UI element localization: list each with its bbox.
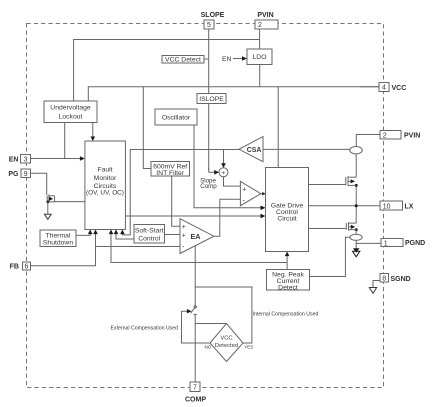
svg-text:Detect: Detect: [278, 284, 298, 291]
wire pin2 top stem to LDO: [259, 29, 261, 49]
transistor Q1 PG open-drain: [46, 194, 85, 203]
svg-text:Detected: Detected: [215, 343, 238, 349]
wire EA output to comparator minus: [214, 199, 241, 236]
block Soft-Start Control: [134, 225, 165, 244]
pin 2 PVIN right: [380, 131, 420, 140]
node low FET source: [355, 228, 358, 231]
wire VCC rail y=86.7: [88, 87, 379, 101]
svg-text:YES: YES: [244, 344, 253, 349]
decision diamond VCC Detected: [205, 324, 254, 362]
ground SGND: [369, 288, 376, 294]
svg-text:+: +: [182, 224, 186, 231]
svg-text:INT Filter: INT Filter: [156, 170, 185, 177]
svg-text:VCC: VCC: [392, 85, 407, 92]
pin 8 SGND: [380, 274, 411, 283]
pin 10 LX: [380, 201, 414, 210]
wire 600mV ref feed from VCC rail: [143, 87, 151, 169]
wire FB branch to EA minus: [96, 246, 181, 248]
svg-text:COMP: COMP: [185, 397, 206, 404]
pin 5 SLOPE: [201, 12, 225, 29]
wire sensor to PGND pin and ground: [356, 240, 381, 243]
svg-text:PVIN: PVIN: [257, 12, 273, 19]
current sensor PGND ellipse: [350, 234, 362, 240]
svg-text:Monitor: Monitor: [94, 175, 117, 182]
svg-text:NO: NO: [205, 344, 212, 349]
svg-text:LX: LX: [405, 203, 414, 210]
svg-text:10: 10: [383, 203, 391, 210]
svg-text:EN: EN: [9, 156, 19, 163]
svg-text:CSA: CSA: [247, 147, 262, 154]
current sensor PVIN ellipse: [350, 147, 363, 154]
block Fault Monitor Circuits: [85, 141, 126, 230]
block VCC Detect: [162, 56, 204, 64]
svg-text:Internal Compensation Used: Internal Compensation Used: [253, 312, 319, 318]
pin 6 FB: [10, 262, 31, 271]
wire internal comp branch (YES path): [195, 287, 252, 343]
svg-text:5: 5: [207, 22, 211, 29]
ground PG transistor: [47, 202, 49, 214]
ground PGND arrow: [355, 243, 357, 249]
wire CSA sense line to PVIN current sensor: [263, 148, 350, 150]
wire sensor to high FET drain: [355, 154, 357, 177]
svg-text:FB: FB: [10, 264, 19, 271]
svg-text:ISLOPE: ISLOPE: [199, 96, 224, 103]
wire high gate lead: [309, 184, 346, 186]
svg-text:7: 7: [193, 385, 197, 392]
switch compensation select: [191, 306, 197, 382]
wire VCC to gate drive vertical x=278.2: [277, 87, 279, 168]
label box ISLOPE: [197, 94, 226, 104]
label EN with arrow into LDO: [222, 56, 247, 63]
wire PVIN/EN top rail y=39.5: [74, 40, 260, 102]
wire soft-start to EA plus: [165, 234, 181, 236]
svg-text:Control: Control: [138, 236, 160, 243]
svg-text:LDO: LDO: [253, 54, 267, 61]
wire COMP sense from fault monitor: [111, 233, 287, 263]
pin 9 PG: [8, 169, 30, 178]
svg-text:Undervoltage: Undervoltage: [50, 105, 91, 112]
svg-text:Thermal: Thermal: [46, 232, 71, 239]
wire summing junction to comparator plus: [224, 177, 241, 186]
IC boundary dashed border: [27, 24, 384, 388]
block Oscillator: [155, 109, 197, 125]
wire LX line to pin10: [309, 205, 381, 207]
summing junction slope comp: [219, 168, 228, 177]
svg-text:PGND: PGND: [405, 240, 425, 247]
transistor Q3 low-side MOSFET: [346, 222, 356, 230]
svg-text:Shutdown: Shutdown: [43, 239, 73, 246]
wire comparator output to gate drive: [261, 193, 264, 195]
wire LX node vertical: [355, 185, 357, 223]
op-amp EA error amplifier: [180, 219, 214, 254]
svg-text:4: 4: [382, 85, 386, 92]
svg-text:(OV, UV, OC): (OV, UV, OC): [86, 189, 124, 196]
wire LDO output stem: [259, 65, 261, 87]
svg-text:+: +: [242, 186, 246, 193]
wire SGND pin to ground: [373, 281, 380, 288]
wire PVIN pin2 to current sensor: [356, 135, 380, 147]
wire low FET source to PGND sensor: [355, 230, 357, 235]
wire CSA output to fault monitor loop: [122, 150, 239, 235]
svg-text:External Compensation Used: External Compensation Used: [111, 326, 179, 332]
svg-text:2: 2: [258, 22, 262, 29]
svg-text:9: 9: [24, 171, 28, 178]
wire summing junction drop from CSA line: [223, 150, 225, 165]
wire SLOPE net: pin5 down to summing junction: [208, 29, 210, 170]
wire soft-start to fault monitor: [116, 233, 134, 240]
svg-text:SGND: SGND: [391, 276, 411, 283]
svg-text:8: 8: [382, 276, 386, 283]
block LDO: [247, 49, 272, 65]
block Undervoltage Lockout: [44, 101, 97, 123]
wire low gate lead: [309, 228, 347, 230]
svg-text:Lockout: Lockout: [59, 114, 83, 121]
svg-text:Oscillator: Oscillator: [162, 115, 191, 122]
label Slope Comp: [200, 178, 217, 190]
wire fault monitor to gate drive: [125, 215, 262, 217]
wire oscillator to gate drive: [194, 125, 262, 208]
pin 1 PGND: [381, 239, 425, 248]
svg-text:3: 3: [24, 157, 28, 164]
pin 2 PVIN top: [255, 12, 278, 29]
wire neg peak detect to gate drive: [286, 255, 288, 270]
svg-text:1: 1: [384, 240, 388, 247]
comparator PWM: [240, 181, 260, 205]
svg-text:Fault: Fault: [97, 167, 112, 174]
wire PGND sensor tap to neg peak detect: [310, 237, 351, 276]
wire 600mV ref to EA plus: [172, 176, 180, 226]
svg-text:+: +: [182, 233, 186, 240]
svg-text:Soft-Start: Soft-Start: [135, 228, 164, 235]
pin 7 COMP: [185, 382, 206, 404]
op-amp CSA current sense: [239, 137, 263, 162]
transistor Q2 high-side MOSFET: [346, 176, 356, 186]
pin 3 EN: [9, 155, 31, 164]
wire external comp branch (NO path): [182, 311, 211, 343]
block Thermal Shutdown: [40, 230, 76, 247]
svg-text:2: 2: [383, 133, 387, 140]
wire diamond top branch: [195, 323, 226, 325]
svg-text:Circuit: Circuit: [277, 215, 296, 222]
block Neg Peak Current Detect: [267, 270, 310, 292]
wire UVL to Fault Monitor arrow: [92, 123, 94, 139]
block Gate Drive Control Circuit: [266, 168, 309, 252]
svg-text:VCC: VCC: [220, 335, 232, 341]
svg-text:6: 6: [25, 264, 29, 271]
wire SLOPE into summing circle with arrow: [209, 171, 216, 173]
svg-text:EN: EN: [222, 56, 232, 63]
wire UVL bottom to EN line: [64, 123, 66, 159]
svg-text:PVIN: PVIN: [404, 132, 420, 139]
node LX: [355, 204, 358, 207]
svg-text:VCC Detect: VCC Detect: [165, 57, 201, 64]
block 600mV Ref INT Filter: [151, 162, 190, 178]
wire VCC Detect tick to slope line: [204, 58, 209, 60]
wire EA output to COMP pin: [194, 245, 196, 306]
node high FET source: [355, 184, 358, 187]
svg-text:EA: EA: [191, 232, 201, 241]
svg-text:Comp: Comp: [200, 183, 217, 190]
svg-text:PG: PG: [8, 171, 19, 178]
wire PG pin to transistor gate: [31, 173, 47, 195]
wire FB net: pin to EA- and fault monitor: [31, 233, 96, 266]
wire thermal shutdown to fault monitor: [76, 233, 90, 236]
wire EN pin to Fault Monitor: [31, 158, 82, 160]
svg-text:+: +: [221, 170, 225, 177]
pin 4 VCC: [360, 83, 406, 92]
svg-text:SLOPE: SLOPE: [201, 12, 225, 19]
